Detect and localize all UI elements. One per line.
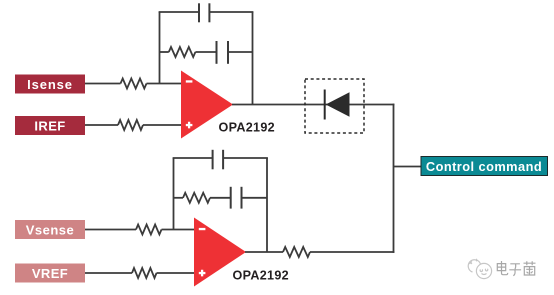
resistor R7 (U1B output) xyxy=(283,247,310,257)
wire U1B output xyxy=(245,251,394,253)
wire feedback-B inner branch xyxy=(174,197,268,199)
svg-text:Vsense: Vsense xyxy=(26,222,75,237)
wire feedback-B left vertical (inverting node to loop) xyxy=(173,158,175,230)
resistor R4 (Vsense input) xyxy=(136,225,162,235)
dashed box (ideal diode block) xyxy=(305,79,364,133)
capacitor C2 (inner feedback A) xyxy=(217,41,229,64)
wire output node vertical xyxy=(393,104,395,253)
svg-text:VREF: VREF xyxy=(32,266,68,281)
resistor R6 (inner feedback B) xyxy=(183,193,210,203)
Isense input label xyxy=(15,75,85,94)
op-amp U1B OPA2192 xyxy=(194,218,246,287)
wire branch to Control command xyxy=(394,166,424,168)
svg-text:IREF: IREF xyxy=(34,118,65,133)
capacitor C4 (inner feedback B) xyxy=(231,187,242,209)
watermark icon (microbe mascot) xyxy=(468,259,491,279)
wire Isense to inverting input of U1A xyxy=(85,83,182,85)
op-amp U1A OPA2192 xyxy=(181,71,233,139)
svg-text:OPA2192: OPA2192 xyxy=(219,121,275,135)
resistor R2 (IREF input) xyxy=(118,120,143,130)
wire VREF to non-inverting input of U1B xyxy=(85,272,195,274)
svg-text:Control command: Control command xyxy=(426,159,542,174)
capacitor C3 (outer feedback B) xyxy=(213,150,224,170)
resistor R1 (Isense input) xyxy=(121,79,147,89)
IREF input label xyxy=(15,116,85,135)
wire feedback-A inner branch xyxy=(160,51,253,53)
wire feedback-B outer top xyxy=(173,157,268,159)
wire U1A output xyxy=(232,104,394,106)
svg-text:OPA2192: OPA2192 xyxy=(233,269,289,283)
watermark text 电子菌 xyxy=(497,261,535,276)
svg-text:Isense: Isense xyxy=(27,77,73,92)
wire feedback-B right vertical (loop to output node) xyxy=(266,158,268,252)
diode D1 xyxy=(325,90,350,120)
wire feedback-A left vertical (inverting node to loop) xyxy=(159,12,161,84)
wire Vsense to inverting input of U1B xyxy=(85,229,195,231)
resistor R5 (VREF input) xyxy=(132,268,157,278)
resistor R3 (inner feedback A) xyxy=(169,47,196,57)
wire feedback-A outer top xyxy=(159,11,254,13)
wire feedback-A right vertical (loop to output node) xyxy=(252,12,254,105)
Control command output label xyxy=(421,157,548,176)
Vsense input label xyxy=(15,220,85,239)
VREF input label xyxy=(15,264,85,283)
capacitor C1 (outer feedback A) xyxy=(199,3,209,22)
wire IREF to non-inverting input of U1A xyxy=(85,124,182,126)
